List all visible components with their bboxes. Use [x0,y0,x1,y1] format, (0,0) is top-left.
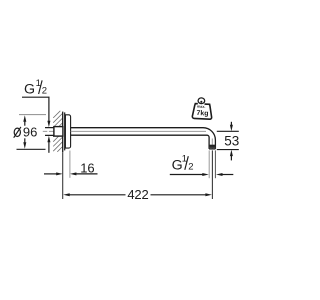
svg-text:7kg: 7kg [196,110,208,118]
outlet thread band [209,145,215,148]
weight icon max 7kg [192,97,212,119]
svg-text:53: 53 [224,134,239,149]
G1/2 leader down arrow [47,97,50,128]
dim 53 bottom extension [217,149,239,151]
dim 16 right arrow [70,172,98,175]
outlet right edge extension [214,150,216,178]
inlet stub pipe [45,128,63,136]
svg-text:G: G [24,82,35,98]
dim 53 top extension [217,130,239,132]
arm tube bottom line with inner bend [71,135,209,149]
label G1/2 right [172,154,194,174]
dia96 bottom extension line [17,148,46,150]
dim 422 line right [151,193,212,196]
G1/2 lower up arrow [47,136,50,153]
outlet center extension to 422 [211,150,213,199]
wall hatch [53,111,62,152]
stub pipe centerline [43,130,62,132]
dim 53 up arrow [230,150,233,161]
svg-text:2: 2 [188,161,193,172]
label G1/2 top-left underline [22,96,50,98]
outlet end cap [209,148,215,150]
right G1/2 leader arrow [170,173,209,176]
outlet centerline [211,139,213,150]
wall nut box [54,127,63,137]
svg-text:2: 2 [42,86,47,97]
wall face line [62,112,64,153]
flange back plate [64,112,66,150]
right G1/2 opposite arrow [216,173,233,176]
arm tube outer top line with bend [71,128,216,149]
outlet left gray extension [208,150,210,178]
diameter symbol [14,127,21,138]
wall face extension line [62,152,64,199]
dim 53 down arrow [230,122,233,132]
dim 422 line left [63,193,125,196]
arm tube centerline [71,130,206,132]
dia96 down arrow [23,138,26,149]
dia96 top extension line [19,114,46,116]
svg-text:max.: max. [197,105,206,109]
svg-text:96: 96 [23,125,37,140]
dim 16 left arrow [44,172,63,175]
flange face extension line [69,151,71,178]
flange body [65,115,70,148]
svg-text:16: 16 [80,160,94,175]
label G1/2 top-left [24,78,47,98]
dia96 up arrow [23,115,26,126]
svg-text:422: 422 [127,187,148,202]
